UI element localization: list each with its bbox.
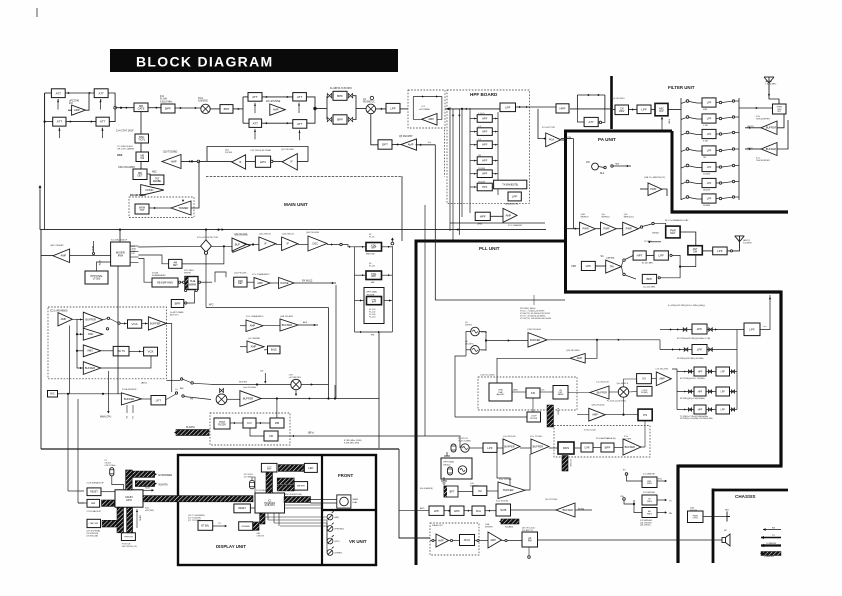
rl2 wire (598, 167, 604, 168)
filter unit LPF 6 (702, 178, 716, 187)
branch up wire (334, 385, 336, 399)
PA unit top boundary (566, 130, 673, 133)
relay contact (197, 160, 200, 163)
fm if wire c (297, 161, 308, 163)
ref oscillator (461, 444, 469, 452)
svg-text:1.9M: 1.9M (703, 125, 708, 127)
buffer to lpt wire (142, 398, 152, 400)
to HPF board wire (445, 108, 452, 110)
arrowhead (180, 107, 182, 109)
svg-text:MRF450: MRF450 (602, 217, 611, 219)
vr branch wire (250, 428, 264, 436)
xtal right bus (391, 246, 393, 332)
svg-text:AMP: AMP (438, 538, 444, 542)
arrowhead (99, 100, 101, 102)
svg-text:M-DATA: M-DATA (186, 426, 195, 429)
lpf before div (637, 105, 651, 114)
relay contact (652, 222, 654, 224)
ant1 label (743, 239, 752, 245)
fo box (243, 418, 256, 428)
x2 wire loop (252, 477, 255, 493)
svg-text:ALB: ALB (303, 321, 308, 324)
svg-text:Q4B 2SL4865: Q4B 2SL4865 (280, 316, 294, 318)
rows right bus (736, 350, 738, 410)
potentiometer (AF) (327, 511, 334, 520)
bypass top wire (577, 94, 605, 96)
svg-text:AMP: AMP (257, 281, 263, 285)
ic14 label (111, 240, 128, 242)
relay to lpf 3 (689, 133, 702, 135)
front wires 2 (284, 507, 322, 509)
arrowhead (665, 499, 667, 501)
vca out wire (142, 323, 149, 325)
SUB CPU box (255, 493, 285, 513)
join to antsw wire (680, 255, 696, 267)
ATT input split (242, 97, 244, 123)
svg-text:IC12 SC/40M: IC12 SC/40M (496, 501, 508, 503)
arrowhead (233, 422, 235, 424)
att stub (598, 121, 599, 123)
reg2 label (643, 491, 656, 494)
arrowhead (225, 525, 227, 527)
bpt to x2 wire (458, 491, 473, 493)
hf amp label (508, 224, 523, 227)
svg-text:TRIMER: TRIMER (178, 206, 188, 210)
amp1 out (72, 318, 77, 320)
arrowhead (679, 348, 681, 350)
svg-text:82.205 MHz: 82.205 MHz (642, 263, 653, 265)
ATT bias stub (298, 103, 300, 114)
svg-text:IC7x TLAMENBCV: IC7x TLAMENBCV (246, 315, 264, 318)
arrowhead (665, 511, 667, 513)
arrowhead (389, 299, 391, 301)
svg-text:LPF: LPF (707, 101, 712, 104)
PWR CTRL box (688, 511, 704, 523)
arrowhead (396, 143, 398, 145)
svg-text:IF: IF (287, 242, 290, 246)
trimer feed wire (191, 161, 199, 208)
arrowhead (349, 246, 351, 248)
wire to 2nd mixer (356, 108, 366, 110)
ATT join wire (108, 93, 115, 122)
vco fb wire (466, 332, 471, 357)
arrowhead (495, 186, 497, 188)
ca wire (624, 500, 634, 504)
dds buf2 label (530, 436, 543, 438)
svg-text:0.1-0.5: 0.1-0.5 (478, 113, 485, 115)
svg-text:DIV: DIV (659, 110, 664, 113)
wdata bus (135, 481, 154, 487)
ABC DIV box (655, 103, 668, 115)
PLL IC dashed block C10 (478, 377, 577, 410)
mixer labels (198, 98, 209, 103)
svg-text:HPF: HPF (698, 391, 703, 393)
filter unit LPF 3 (702, 129, 716, 138)
eia bus (102, 500, 115, 506)
junction (102, 393, 104, 395)
HPF filter 4 (477, 157, 492, 165)
antenna feed wire (769, 90, 779, 104)
svg-text:MOSMTOC: MOSMTOC (363, 102, 375, 104)
vco control wire (455, 356, 466, 417)
bypass left vert (576, 95, 578, 109)
out bus stub 6 (735, 181, 739, 183)
svg-text:LT-500: LT-500 (93, 278, 101, 281)
arrowhead (101, 129, 103, 131)
main unit right border (401, 176, 403, 241)
hpf right bus (497, 112, 499, 195)
arrowhead (495, 144, 497, 146)
svg-text:BUFFER: BUFFER (766, 126, 777, 130)
svg-text:BUFFER: BUFFER (504, 444, 515, 448)
svg-text:FILTER: FILTER (218, 424, 226, 426)
arrowhead (768, 93, 770, 95)
reg1 label (643, 473, 655, 476)
junction (76, 350, 78, 352)
arrowhead (690, 409, 692, 411)
attenuator ATT6 (293, 93, 307, 101)
svg-text:CAP/B: CAP/B (139, 515, 142, 521)
svg-text:BUFFER: BUFFER (124, 397, 135, 401)
HPF right box (556, 104, 569, 113)
svg-text:IRM: IRM (118, 253, 124, 257)
expand box (239, 522, 253, 531)
svg-text:FO: FO (247, 421, 252, 425)
db box (270, 418, 284, 428)
svg-text:MAIN UNIT: MAIN UNIT (284, 202, 308, 207)
1st mixer Q16 (201, 104, 210, 113)
svg-text:ATT: ATT (56, 91, 62, 95)
svg-text:GECONGS(+12): GECONGS(+12) (122, 546, 137, 548)
junction (314, 107, 316, 109)
balmod label (420, 487, 433, 490)
relay contact (106, 328, 108, 330)
pwr ctrl label (690, 507, 698, 512)
svg-text:ATT: ATT (98, 91, 104, 95)
hpf 6 out wire (492, 186, 498, 188)
svg-text:BUFFER: BUFFER (150, 321, 161, 325)
stub2 (533, 295, 535, 305)
svg-text:CAP SW: CAP SW (89, 522, 99, 525)
to eia wire (78, 502, 84, 504)
capb stub (136, 509, 138, 528)
q4v label (566, 350, 580, 352)
HF amp IC7 (503, 208, 517, 222)
xtal3 in (355, 300, 365, 302)
sw arm2 (110, 319, 118, 323)
row2 out (730, 409, 738, 411)
coupling (708, 408, 711, 411)
svg-text:Q4V 4SC4448: Q4V 4SC4448 (566, 350, 580, 352)
svg-text:Q4 CSATME: Q4 CSATME (248, 337, 260, 340)
arrowhead (715, 328, 717, 330)
arrowhead (331, 243, 333, 245)
if amp 2 (282, 237, 298, 251)
svg-text:KIA AN OUT: KIA AN OUT (432, 524, 444, 527)
sidetone arm (183, 379, 191, 382)
BPF F12 labels (160, 96, 173, 103)
arrowhead (419, 144, 421, 146)
af wire3 (485, 510, 496, 512)
entry wire (452, 108, 500, 110)
filter right bus (738, 98, 740, 200)
HPT box (633, 251, 646, 260)
reemp to wsrm wire (178, 281, 185, 283)
afc wire 2 (206, 307, 229, 309)
arrowhead (756, 107, 758, 109)
arrowhead (378, 331, 380, 333)
svg-text:VCOn: VCOn (481, 350, 488, 352)
pll amp Q4V (570, 354, 585, 364)
vox buffer 2 (148, 317, 166, 330)
arrowhead (266, 96, 268, 98)
svg-text:MU TS: MU TS (117, 350, 125, 353)
fuse buffer (556, 503, 575, 517)
bus top terminal (391, 242, 394, 245)
lpf out 7 (716, 198, 719, 200)
attenuator ATT3 (53, 117, 66, 126)
relay out b 6 (732, 180, 734, 182)
svg-text:CTRL: CTRL (692, 518, 698, 520)
svg-text:EXT FREQ=RX FREQ(45.6MHz+1.5M): EXT FREQ=RX FREQ(45.6MHz+1.5M) (677, 338, 710, 340)
svg-text:BUFFER: BUFFER (766, 147, 777, 151)
meter out wire (301, 384, 328, 386)
driver label 3 (624, 214, 635, 219)
arrowhead (264, 381, 266, 383)
BPF lower (333, 115, 347, 124)
arrowhead (672, 348, 674, 350)
potentiometer (RIT) (327, 535, 334, 544)
svg-text:ZERBE: ZERBE (153, 180, 161, 183)
main unit bottom border (41, 448, 399, 450)
ic14 pin 2 (130, 251, 138, 253)
fwd stub (661, 117, 663, 131)
wire to ATT1 (45, 92, 52, 94)
q1v label (527, 329, 542, 331)
svg-text:AFD: AFD (420, 507, 425, 510)
lpf out 4 (716, 150, 719, 152)
out bus stub 2 (735, 116, 739, 118)
arrowhead (452, 115, 454, 117)
display unit boundary (178, 455, 376, 565)
bpf right bus (353, 96, 356, 120)
q43 label (282, 234, 295, 236)
mute to vck wire (129, 350, 144, 352)
arrowhead (769, 297, 771, 299)
svg-text:RX FREQ=1.56(45M)+456.20000 MH: RX FREQ=1.56(45M)+456.20000 MHz (680, 418, 713, 420)
svg-text:BUFFER: BUFFER (85, 318, 96, 322)
svg-text:MIC: MIC (50, 393, 55, 396)
rowA label (252, 273, 270, 276)
dds wire1 (497, 447, 503, 449)
input split wire (44, 93, 46, 122)
relay out b 2 (732, 116, 734, 118)
hpf left outer bus (449, 107, 451, 231)
svg-text:HPF: HPF (482, 117, 487, 120)
FM IF amp Q51 (282, 154, 297, 170)
arrowhead (690, 371, 692, 373)
attenuator ATT8 (293, 120, 307, 129)
loop left wire (413, 97, 421, 120)
q5 out wire (416, 144, 436, 146)
feed to mixer irm (119, 230, 121, 242)
arrowhead (618, 339, 620, 341)
vr box (264, 431, 278, 441)
dds wire2 (520, 447, 531, 449)
relay out a 2 (719, 117, 721, 119)
svg-text:WSRM: WSRM (184, 273, 191, 275)
lcd bus (266, 472, 273, 493)
LOOP FIL box (637, 386, 652, 396)
relay in 5 (686, 164, 689, 167)
left vertical lower (44, 122, 46, 230)
svg-text:AST RTC: AST RTC (170, 314, 179, 317)
fm if wire b (271, 161, 283, 163)
att left wire (577, 109, 584, 122)
pa final out wire (662, 189, 667, 196)
wire ATT7-8 (262, 122, 293, 124)
svg-text:CARSNA: CARSNA (606, 257, 615, 260)
row C1 LPF (716, 387, 730, 396)
pwr ctrl wire (703, 516, 727, 518)
svg-text:X2: X2 (478, 489, 482, 493)
svg-text:DN: DN (260, 371, 264, 373)
svg-text:FM: FM (371, 335, 374, 337)
FM IF amp Q52 (232, 155, 246, 169)
svg-text:PAD: PAD (88, 332, 93, 336)
svg-text:TAS: TAS (615, 163, 620, 166)
bpf left bus (326, 96, 328, 120)
svg-text:COMMON: COMMON (766, 543, 777, 545)
svg-text:FM: FM (568, 137, 571, 140)
svg-text:FLAMENB4M: FLAMENB4M (152, 274, 166, 277)
meter bus 2 (277, 485, 294, 491)
encoder wire 2 (311, 502, 337, 504)
arrowhead (80, 367, 82, 369)
arrowhead (495, 160, 497, 162)
MIXER IRM IC14 (111, 242, 131, 266)
relay contact (185, 302, 187, 304)
arrowhead (474, 160, 476, 162)
svg-text:OUT: OUT (777, 111, 782, 113)
hpf 5 out wire (492, 173, 498, 175)
main unit top border (206, 176, 402, 178)
relay contact (175, 392, 177, 394)
am3 amp (83, 345, 101, 357)
ant2 label (765, 80, 776, 86)
arrowhead (68, 92, 70, 94)
svg-text:Q66 2SC4045: Q66 2SC4045 (306, 232, 320, 234)
driver label 2 (602, 214, 611, 219)
junction (44, 121, 46, 123)
row amp A (254, 278, 270, 289)
svg-text:TRI: TRI (610, 265, 614, 269)
junction (252, 243, 254, 245)
tx mixer Q44 (216, 394, 227, 405)
svg-text:Q5x TRCXHF: Q5x TRCXHF (545, 499, 558, 501)
hpf 1 in wire (470, 118, 477, 120)
svg-text:Q19 TSCMB2: Q19 TSCMB2 (163, 152, 178, 154)
relay in 7 (686, 196, 689, 199)
arrowhead (474, 173, 476, 175)
amp in wire (68, 109, 72, 111)
filter unit bottom boundary (671, 210, 789, 213)
ATT bias stub (59, 128, 61, 139)
FM drive wire (573, 139, 575, 229)
reg3 out (657, 512, 665, 514)
svg-text:VCOa: VCOa (481, 332, 488, 334)
svg-text:IC1x TC75xxF: IC1x TC75xxF (499, 479, 513, 481)
coupling (684, 348, 688, 352)
relay to lpf 5 (689, 166, 702, 168)
chassis outer left boundary (676, 465, 679, 564)
svg-text:T/CPL: T/CPL (138, 139, 146, 142)
rowA entry (660, 329, 668, 331)
tx buffer label (243, 387, 256, 389)
legend COMMON arrow (761, 544, 781, 546)
PA final amp Q48 (648, 183, 662, 196)
svg-text:DRV: DRV (619, 110, 625, 113)
arrowhead (526, 106, 528, 108)
fuse wire (575, 509, 592, 511)
POWER OUT box (773, 104, 787, 114)
pll buf2 label (596, 382, 610, 384)
pos kle label (122, 544, 137, 548)
svg-text:BUF: BUF (235, 242, 241, 246)
relay out a 5 (719, 166, 721, 168)
svg-text:FE C1x REMARKS LPA2: FE C1x REMARKS LPA2 (665, 219, 689, 222)
coupling (731, 370, 734, 373)
svg-text:OPTIONAL: OPTIONAL (443, 461, 455, 464)
ic14 pin 1 (130, 245, 138, 247)
XTAL BPF 2 (366, 271, 382, 280)
front column divider (321, 455, 323, 565)
w (643, 224, 652, 226)
buffer1 wire (745, 127, 761, 129)
row2 entry (677, 409, 694, 411)
BPF upper (333, 91, 347, 100)
to pwr det wire (654, 223, 666, 226)
svg-text:(ANT)1: (ANT)1 (743, 239, 751, 242)
q5 label (465, 322, 473, 326)
svg-text:LPF: LPF (717, 249, 723, 253)
beep wire (93, 241, 95, 252)
tx signal wire (261, 398, 379, 400)
svg-text:Q6 2SC4015: Q6 2SC4015 (612, 98, 625, 100)
wire MB GATE to BPF (148, 107, 161, 109)
arrowhead (677, 328, 679, 330)
svg-text:BPF: BPF (165, 107, 171, 111)
relay contact (670, 254, 672, 256)
pllic wire2 (540, 391, 553, 393)
svg-text:LPF: LPF (749, 327, 755, 331)
junction (622, 414, 624, 416)
if wire 2 (276, 244, 282, 246)
q4n out wire (605, 414, 638, 416)
svg-text:PWR: PWR (583, 227, 589, 231)
NSD DET box (234, 277, 247, 287)
svg-text:HPF: HPF (482, 131, 487, 134)
main cpu ctrl wire (107, 371, 109, 412)
amp Q5 left (401, 139, 417, 150)
svg-text:HPV: HPV (260, 160, 266, 164)
relay contact (180, 378, 182, 380)
svg-text:ATT: ATT (252, 95, 258, 99)
svg-text:FRONT: FRONT (338, 473, 353, 478)
relay contact (182, 395, 184, 397)
svg-text:VSB: VSB (571, 265, 576, 268)
chassis box top (713, 489, 788, 492)
